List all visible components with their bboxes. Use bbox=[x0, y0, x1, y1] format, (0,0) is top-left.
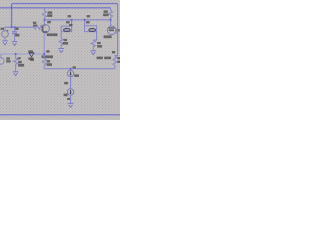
wire V+ top rail bbox=[12, 3, 118, 5]
wire node B horizontal bbox=[1, 53, 45, 55]
transistor Q2 bbox=[107, 20, 117, 35]
voltage source V2 bbox=[0, 54, 4, 64]
label I2 bbox=[87, 15, 91, 17]
wire left vertical from top rail bbox=[11, 4, 13, 28]
ground under R3 bbox=[58, 49, 64, 53]
label C1 value bbox=[15, 34, 19, 37]
ground under C1 bbox=[12, 42, 18, 46]
label C1 bbox=[15, 28, 18, 30]
label R3 bbox=[64, 39, 68, 41]
ground under V1 bbox=[2, 41, 8, 45]
label R8 value bbox=[117, 57, 120, 59]
label I3 bbox=[73, 66, 76, 68]
label R5 bbox=[48, 11, 53, 13]
transistor Q1 bbox=[41, 25, 49, 33]
diode D1 bbox=[29, 53, 34, 57]
resistor R8 bbox=[113, 56, 117, 69]
label D1 bbox=[28, 50, 33, 52]
resistor R6 bbox=[42, 54, 46, 69]
current source I2 body bbox=[89, 28, 96, 31]
junction at input wire and C1 bbox=[14, 26, 16, 28]
resistor R3 bbox=[59, 32, 63, 49]
label Q1 model bbox=[47, 33, 58, 36]
ground under I4 bbox=[68, 103, 74, 107]
label V2 bbox=[6, 57, 10, 59]
junction at node B and R6 bbox=[43, 53, 45, 55]
label I4 bbox=[64, 94, 68, 97]
JFET J1 bbox=[44, 51, 46, 53]
junction at node B and R4 bbox=[15, 53, 17, 55]
label Q2 arrow bbox=[117, 29, 120, 32]
wire right edge bbox=[115, 4, 118, 56]
label R2 bbox=[104, 10, 108, 13]
wire input node left bbox=[5, 26, 34, 28]
label R7 bbox=[97, 42, 101, 44]
capacitor C1 bbox=[12, 27, 17, 41]
wire Q1 emitter drop bbox=[43, 33, 45, 54]
wire between I3 and I4 bbox=[70, 77, 72, 89]
label Q1 bbox=[47, 21, 51, 23]
junction at input wire and left vertical bbox=[11, 26, 13, 28]
junction at collector bus and I2 loop bbox=[84, 19, 86, 21]
ground under R7 bbox=[91, 51, 97, 55]
label node bbox=[30, 59, 34, 61]
label J1 model bbox=[42, 55, 53, 58]
current source I2 drop wire bbox=[84, 20, 86, 26]
label R6 bbox=[47, 60, 51, 62]
current source I4 bbox=[67, 89, 73, 103]
current source I1 drop wire bbox=[71, 20, 73, 26]
voltage source V1 bbox=[2, 27, 9, 41]
junction at collector bus and I1 loop bbox=[71, 19, 73, 21]
junction at output bus and I3 bbox=[70, 68, 72, 70]
wire I2 to R7 bbox=[93, 32, 96, 40]
resistor R5 bbox=[42, 8, 46, 25]
wire second rail bbox=[0, 7, 111, 9]
current source I2 loop bbox=[85, 26, 97, 32]
label D1 value bbox=[28, 58, 33, 60]
current source I3 bbox=[67, 69, 73, 77]
label V1 bbox=[1, 28, 4, 30]
current source I1 body bbox=[64, 28, 71, 31]
resistor R4 bbox=[14, 54, 18, 72]
junction at V+ rail and left vertical bbox=[11, 7, 13, 9]
label R1 bbox=[33, 22, 36, 24]
label Q2 model bbox=[104, 35, 112, 38]
label I1 bbox=[68, 15, 72, 17]
resistor R2 top right bbox=[109, 8, 113, 20]
label I4 name bbox=[64, 82, 68, 84]
ground under R4 bbox=[13, 72, 19, 76]
resistor R1 horizontal bbox=[34, 25, 42, 29]
label near R8 bbox=[112, 51, 115, 53]
label diode model row bbox=[97, 57, 103, 60]
current source I1 loop bbox=[61, 26, 71, 32]
resistor R7 bbox=[91, 40, 95, 50]
label R4 bbox=[18, 57, 21, 59]
wire collector bus node A bbox=[45, 19, 111, 21]
junction at collector bus and Q1 bbox=[44, 19, 46, 21]
junction at collector bus and Q2 bbox=[110, 19, 112, 21]
wire V- bottom rail bbox=[0, 114, 120, 116]
wire output bus bbox=[44, 68, 115, 70]
